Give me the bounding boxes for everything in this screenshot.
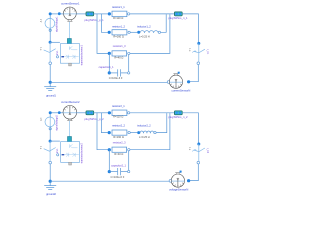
V2 value label — [39, 117, 41, 121]
wire plug p to resistor row 1 — [94, 13, 109, 15]
ground ground2 — [44, 182, 56, 189]
capacitor capacitor1_1 — [109, 69, 127, 76]
wire source1 top pin — [49, 15, 51, 19]
switch S1b name label (rotated) — [206, 49, 208, 55]
wire plug n to right switch — [182, 113, 198, 144]
converter inverter2 gate input square — [68, 137, 72, 142]
wire row3 node down to capacitor1 — [108, 53, 110, 73]
wire bus A down to row 3 — [97, 113, 108, 150]
resistor1_2 label — [112, 25, 125, 29]
resistor2_1 label — [112, 104, 125, 108]
V2 name label (rotated) — [55, 114, 58, 130]
resistor2_3 value R=40 Ohm — [114, 152, 123, 156]
node right switch top dot — [197, 143, 200, 146]
svg-text:resistor1_3: resistor1_3 — [113, 44, 126, 48]
switch S2 value label — [39, 146, 41, 150]
node ground junction dot — [49, 180, 52, 183]
voltage source V2 — [45, 117, 55, 127]
converter inverter1 internal circuit — [64, 46, 79, 59]
wire resistor1_1 to plugToPins_n_1 — [130, 13, 175, 15]
resistor1_3 label — [113, 44, 126, 48]
wire currentSensor1 to plugToPins_p_1 — [76, 13, 86, 15]
inverter2 left pin open circle — [57, 154, 59, 156]
svg-text:ground2: ground2 — [46, 192, 56, 196]
pin resistor1_3 right open circle — [128, 52, 130, 54]
svg-text:1 s: 1 s — [188, 147, 190, 151]
wire bus A down to row 3 — [97, 14, 108, 54]
inductor1_2 value L=0.25 H — [139, 35, 150, 39]
plugToPins_p_1 label — [84, 18, 104, 22]
node resistor2_1 left pin dot — [108, 111, 111, 114]
svg-text:resistor2_3: resistor2_3 — [113, 140, 126, 144]
switch S1 contact open circle — [49, 62, 52, 65]
resistor resistor2_1 — [112, 110, 127, 116]
switch S1 value label — [39, 47, 41, 51]
node capacitor1 left pin dot — [108, 71, 111, 74]
svg-text:inv1: inv1 — [56, 50, 59, 55]
plugToPins_p_2 label — [84, 117, 104, 121]
svg-text:transistorInverter1: transistorInverter1 — [81, 45, 84, 66]
node dot on wire at x59 — [58, 111, 61, 114]
resistor resistor1_2 — [108, 31, 111, 34]
wire plug n to right switch — [182, 14, 198, 44]
resistor1_1 label — [112, 5, 125, 9]
inductor2_2 value L=0.25 H — [139, 135, 150, 139]
sensor currentSensorN — [169, 74, 182, 89]
node source2.p junction dot — [49, 111, 52, 114]
inductor2_2 label — [137, 124, 151, 128]
wire switch S1 to ground bus — [49, 65, 51, 83]
svg-text:resistor2_1: resistor2_1 — [112, 104, 125, 108]
svg-text:signalVoltage1: signalVoltage1 — [55, 16, 58, 32]
inverter1 right name label (rotated) — [81, 45, 84, 66]
resistor2_2 label — [112, 124, 125, 128]
switch S2 blade arms — [44, 148, 56, 152]
node capacitor2 left pin dot — [108, 170, 111, 173]
wire inductor1_2 up to plug n — [161, 14, 167, 32]
node resistor1_3 left pin dot — [108, 52, 111, 55]
capacitor capacitor2_1 — [109, 168, 127, 175]
svg-text:resistor2_2: resistor2_2 — [112, 124, 125, 128]
sensor voltageSensorN — [171, 173, 184, 188]
wire source2 top pin — [49, 114, 51, 117]
switch S2b blade arms — [194, 148, 205, 152]
wire bus B down to row 2 — [101, 113, 107, 133]
switch S2b vertical segment — [198, 144, 200, 161]
ground2 label — [46, 192, 56, 196]
wire right switch down to sensor — [189, 164, 198, 181]
plug plugToPins_n_2 — [174, 111, 182, 115]
svg-text:L=0.25 H: L=0.25 H — [139, 135, 150, 139]
capacitor2_1 value C=100e-6 F — [111, 175, 125, 179]
svg-text:plugToPins_n_2: plugToPins_n_2 — [168, 115, 188, 119]
node right switch top dot — [197, 42, 200, 45]
V1 name label (rotated) — [55, 16, 58, 32]
V1 value label — [39, 19, 41, 23]
resistor resistor1_3 — [112, 51, 127, 56]
inverter2 right name label (rotated) — [81, 143, 84, 164]
pin capacitor2 right open circle — [128, 170, 130, 172]
pin inductor2_2 right open circle — [154, 131, 156, 133]
svg-text:transistorInverter2: transistorInverter2 — [81, 143, 84, 164]
svg-text:currentSensorN: currentSensorN — [171, 89, 190, 93]
wire resistor2_2 to inductor2_2 — [130, 132, 137, 134]
node source1.p junction dot — [49, 12, 52, 15]
converter inverter1 heatport square — [69, 63, 72, 66]
svg-text:capacitor1_1: capacitor1_1 — [99, 65, 114, 69]
inductor inductor1_2 — [140, 31, 158, 33]
switch S2 vertical segment — [49, 141, 51, 161]
ground1 label — [46, 93, 56, 97]
node sensor voltageSensorN right dot — [187, 179, 190, 182]
pin currentSensorN left open circle — [167, 81, 170, 84]
switch S1b vertical segment — [198, 43, 200, 62]
wire dc node to converter2 left pin — [50, 140, 60, 142]
pin resistor2_1 right open circle — [128, 112, 130, 114]
svg-text:1 V: 1 V — [39, 117, 41, 121]
currentSensor1 label — [61, 1, 80, 5]
svg-text:1 s: 1 s — [188, 48, 190, 52]
wire switch S2 to ground bus — [49, 164, 51, 181]
node resistor2_3 left pin dot — [108, 148, 111, 151]
currentSensorN label — [171, 89, 190, 93]
inverter2 left name label (rotated) — [56, 148, 59, 153]
switch S2b value label — [188, 147, 190, 151]
inverter1 left name label (rotated) — [56, 50, 59, 55]
node sensor currentSensorN right dot — [187, 80, 190, 83]
pin capacitor1 right open circle — [128, 72, 130, 74]
pin inductor1_2 right open circle — [158, 31, 160, 33]
capacitor2_1 label — [111, 164, 126, 168]
resistor resistor2_2 — [108, 131, 111, 134]
resistor1_2 value R=160 Ohm — [113, 35, 123, 39]
resistor1_3 value R=40 Ohm — [114, 56, 123, 60]
inductor1_2 label — [137, 25, 151, 29]
svg-text:i_C2: i_C2 — [206, 148, 208, 154]
switch S2b name label (rotated) — [206, 148, 208, 154]
svg-text:C=100e-6 F: C=100e-6 F — [111, 175, 125, 179]
svg-text:plugToPins_n_1: plugToPins_n_1 — [168, 16, 188, 20]
wire inductor2_2 up to plug n — [156, 113, 167, 133]
wire plug p to resistor row 1 — [94, 112, 109, 114]
pin resistor1_2 right open circle — [128, 31, 130, 33]
switch S2 contact open circle — [49, 161, 52, 164]
svg-text:voltageSensorN: voltageSensorN — [169, 187, 188, 191]
plugToPins_n_1 label — [168, 16, 188, 20]
svg-text:i_C1: i_C1 — [206, 49, 208, 55]
pin source2.n open circle — [49, 128, 51, 130]
svg-text:inv1: inv1 — [56, 148, 59, 153]
wire capacitor2 right pin up to row3 — [128, 151, 130, 171]
switch S1 blade arms — [44, 49, 56, 53]
current sensor currentSensor2 — [63, 106, 77, 121]
wire capacitor1 right pin up to row3 — [128, 55, 130, 72]
resistor2_3 label — [113, 140, 126, 144]
node dc junction dot left — [49, 140, 52, 143]
wire currentSensor2 to plugToPins_p_2 — [76, 112, 86, 114]
wire bus B down to row 2 — [101, 14, 107, 32]
wire ground bus to voltageSensorN — [50, 180, 170, 182]
svg-text:C=100e-6 F: C=100e-6 F — [109, 76, 123, 80]
signal square above currentSensorN — [178, 72, 180, 74]
svg-text:signalVoltage2: signalVoltage2 — [55, 114, 58, 130]
switch S1b contact open circle — [197, 62, 200, 65]
pin resistor2_3 right open circle — [128, 149, 130, 151]
resistor resistor1_1 — [112, 11, 127, 17]
svg-text:resistor1_2: resistor1_2 — [112, 25, 125, 29]
pin source1.n open circle — [49, 29, 51, 31]
svg-text:inductor2_2: inductor2_2 — [137, 124, 151, 128]
capacitor1_1 value C=100e-6 F — [109, 76, 123, 80]
svg-text:currentSensor2: currentSensor2 — [61, 100, 80, 104]
signal square above voltageSensorN — [180, 171, 182, 173]
plug plugToPins_n_1 — [174, 12, 182, 16]
wire row3 node down to capacitor2 — [108, 150, 110, 172]
converter inverter1 body — [60, 44, 79, 64]
svg-text:currentSensor1: currentSensor1 — [61, 1, 80, 5]
ground ground1 — [44, 84, 56, 91]
pin resistor2_2 right open circle — [128, 131, 130, 133]
node ground junction dot — [49, 81, 52, 84]
switch S2b contact open circle — [197, 161, 200, 164]
resistor2_1 value R=110 Ohm — [113, 115, 123, 119]
wire right switch down to sensor — [189, 65, 198, 82]
svg-text:capacitor2_1: capacitor2_1 — [111, 164, 126, 168]
wire source1.n to node — [49, 28, 51, 42]
capacitor1_1 label — [99, 65, 114, 69]
signal wire currentSensor1 to converter gate — [69, 22, 71, 39]
signal wire currentSensor2 to converter gate — [69, 121, 71, 137]
node inductor1_2 left pin dot — [137, 31, 140, 34]
svg-text:ground1: ground1 — [46, 93, 56, 97]
node inductor2_2 left pin dot — [137, 131, 140, 134]
converter inverter2 heatport square — [69, 162, 72, 165]
inverter1 left pin open circle — [56, 56, 58, 58]
svg-text:inductor1_2: inductor1_2 — [137, 25, 151, 29]
svg-text:1 s: 1 s — [39, 146, 41, 150]
resistor resistor2_3 — [112, 147, 127, 152]
converter inverter1 gate input square — [67, 39, 71, 44]
voltageSensorN label — [169, 187, 188, 191]
plug plugToPins_p_2 — [86, 111, 94, 115]
wire source2 top to currentSensor2 — [50, 112, 63, 114]
wire dc node to converter1 left pin — [50, 41, 60, 43]
voltage source V1 — [45, 18, 55, 28]
pin voltageSensorN left open circle — [169, 180, 172, 183]
wire resistor1_2 to inductor1_2 — [130, 31, 137, 33]
svg-text:1 s: 1 s — [39, 47, 41, 51]
resistor1_1 value R=110 Ohm — [113, 16, 123, 20]
svg-text:1 V: 1 V — [39, 19, 41, 23]
wire resistor2_1 to plugToPins_n_2 — [130, 112, 175, 114]
resistor2_2 value R=160 Ohm — [113, 135, 123, 139]
current sensor currentSensor1 — [64, 7, 77, 21]
node resistor1_1 left pin dot — [108, 12, 111, 15]
switch S1b blade arms — [194, 49, 205, 53]
switch S1b value label — [188, 48, 190, 52]
plugToPins_n_2 label — [168, 115, 188, 119]
converter inverter2 internal circuit — [64, 144, 79, 157]
wire resistor1_3 right and up to plug n — [130, 14, 170, 53]
pin resistor1_1 right open circle — [128, 13, 130, 15]
switch S2b arc mark — [192, 150, 196, 152]
wire source2.n to node — [49, 127, 51, 141]
inductor inductor2_2 — [140, 131, 154, 133]
wire ground bus to currentSensorN — [50, 81, 168, 83]
plug plugToPins_p_1 — [86, 12, 94, 16]
svg-text:L=0.25 H: L=0.25 H — [139, 35, 150, 39]
switch S1b arc mark — [192, 51, 196, 53]
wire resistor2_3 right and up to plug n — [130, 113, 170, 150]
node dot on wire at x59 — [58, 12, 61, 15]
wire source1 top to currentSensor1 — [50, 13, 63, 15]
switch S1 vertical segment — [49, 42, 51, 62]
currentSensor2 label — [61, 100, 80, 104]
node dc junction dot left — [49, 41, 52, 44]
converter inverter2 body — [61, 142, 80, 163]
svg-text:resistor1_1: resistor1_1 — [112, 5, 125, 9]
